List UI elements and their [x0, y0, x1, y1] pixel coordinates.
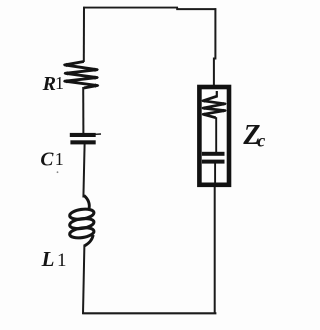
svg-text:L: L [41, 247, 55, 271]
internal wire resistor to capacitor [215, 117, 217, 152]
wire L1 to bottom [83, 245, 84, 315]
svg-text:1: 1 [57, 250, 67, 271]
wire top-right horizontal [177, 8, 216, 10]
capacitor C1 top plate [70, 133, 96, 137]
wire right upper vertical [214, 8, 216, 87]
svg-text:C: C [40, 150, 54, 171]
wire right lower vertical [214, 187, 216, 315]
wire left vertical top (to R1) [83, 7, 85, 62]
internal resistor [202, 96, 227, 117]
wire top-left horizontal [83, 7, 178, 9]
speck below C1 [57, 171, 59, 173]
inductor L1 coil bottom lead [85, 235, 94, 246]
internal stub wire [216, 91, 218, 98]
wire R1 to C1 [82, 87, 84, 134]
svg-text:1: 1 [55, 149, 64, 169]
inductor L1 loop 1 [69, 208, 94, 221]
internal wire capacitor to box bottom [214, 163, 216, 184]
svg-text:1: 1 [55, 73, 64, 93]
wire C1 to L1 [83, 144, 84, 198]
internal capacitor top plate [202, 152, 225, 156]
svg-text:c: c [257, 130, 265, 150]
inductor L1 loop 2 [69, 217, 94, 230]
inductor L1 coil top lead [84, 196, 89, 209]
resistor R1 [63, 62, 100, 88]
wire bottom horizontal [82, 312, 216, 314]
impedance box Zc [199, 87, 229, 185]
svg-text:R: R [42, 73, 56, 95]
internal capacitor bottom plate [202, 160, 225, 164]
inductor L1 loop 3 [69, 226, 94, 239]
capacitor C1 bottom plate [70, 140, 95, 144]
